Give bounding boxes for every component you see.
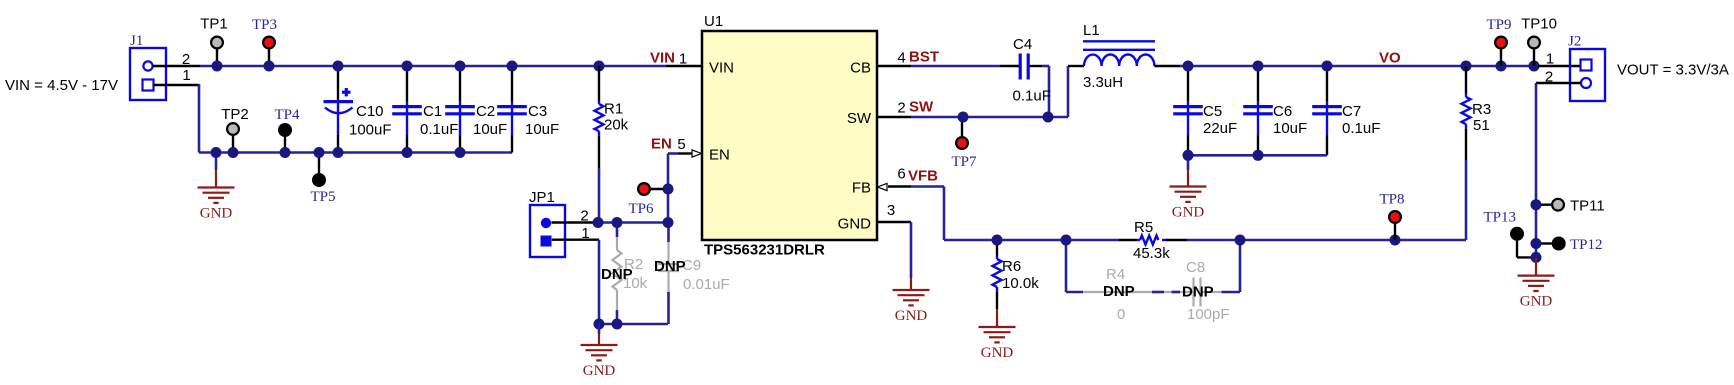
svg-text:TP9: TP9 xyxy=(1486,17,1511,33)
svg-text:TP12: TP12 xyxy=(1570,237,1603,253)
svg-text:10uF: 10uF xyxy=(525,121,559,138)
svg-text:DNP: DNP xyxy=(1103,283,1135,300)
svg-text:VOUT = 3.3V/3A: VOUT = 3.3V/3A xyxy=(1617,62,1729,79)
svg-text:C10: C10 xyxy=(356,103,384,120)
svg-text:0.1uF: 0.1uF xyxy=(420,121,458,138)
svg-text:TP8: TP8 xyxy=(1379,192,1404,208)
svg-text:VIN = 4.5V - 17V: VIN = 4.5V - 17V xyxy=(5,77,118,94)
svg-text:2: 2 xyxy=(897,100,905,117)
svg-text:C4: C4 xyxy=(1013,36,1032,53)
svg-text:DNP: DNP xyxy=(1182,284,1214,301)
svg-text:VIN: VIN xyxy=(650,50,675,67)
svg-text:GND: GND xyxy=(1520,294,1553,310)
svg-text:CB: CB xyxy=(850,60,871,77)
svg-text:TP6: TP6 xyxy=(628,201,654,217)
svg-text:SW: SW xyxy=(847,110,872,127)
svg-text:GND: GND xyxy=(895,308,928,324)
svg-text:J1: J1 xyxy=(130,33,143,49)
svg-text:10.0k: 10.0k xyxy=(1002,275,1039,292)
svg-text:R1: R1 xyxy=(604,101,623,118)
svg-text:1: 1 xyxy=(1546,51,1554,68)
svg-text:TP2: TP2 xyxy=(221,106,249,123)
svg-text:22uF: 22uF xyxy=(1203,120,1237,137)
svg-text:TP11: TP11 xyxy=(1570,198,1605,215)
svg-text:U1: U1 xyxy=(704,13,723,30)
svg-text:SW: SW xyxy=(909,99,934,116)
svg-text:3.3uH: 3.3uH xyxy=(1083,74,1123,91)
svg-text:R3: R3 xyxy=(1472,101,1491,118)
svg-text:3: 3 xyxy=(887,202,895,219)
svg-text:TP7: TP7 xyxy=(951,154,977,170)
svg-text:GND: GND xyxy=(583,363,616,379)
svg-text:0.01uF: 0.01uF xyxy=(683,276,730,293)
svg-text:C1: C1 xyxy=(423,103,442,120)
svg-text:TP4: TP4 xyxy=(274,107,300,123)
svg-text:VIN: VIN xyxy=(709,60,734,77)
svg-text:0: 0 xyxy=(1117,306,1125,323)
svg-text:FB: FB xyxy=(852,180,871,197)
svg-text:1: 1 xyxy=(679,51,687,68)
svg-text:TP13: TP13 xyxy=(1483,210,1516,226)
svg-text:TP5: TP5 xyxy=(310,189,335,205)
svg-text:TP10: TP10 xyxy=(1521,16,1557,33)
svg-text:TP1: TP1 xyxy=(200,16,228,33)
svg-text:100uF: 100uF xyxy=(349,122,392,139)
svg-text:6: 6 xyxy=(897,166,905,183)
svg-text:GND: GND xyxy=(200,206,233,222)
svg-text:VO: VO xyxy=(1379,50,1401,67)
svg-text:C3: C3 xyxy=(528,103,547,120)
svg-text:45.3k: 45.3k xyxy=(1133,245,1170,262)
svg-text:R6: R6 xyxy=(1002,258,1021,275)
svg-text:TP3: TP3 xyxy=(252,17,277,33)
svg-text:R5: R5 xyxy=(1134,219,1153,236)
svg-text:JP1: JP1 xyxy=(529,189,555,206)
svg-text:100pF: 100pF xyxy=(1187,306,1230,323)
svg-text:L1: L1 xyxy=(1083,22,1100,39)
svg-text:C8: C8 xyxy=(1186,259,1205,276)
svg-text:BST: BST xyxy=(909,49,939,66)
svg-text:EN: EN xyxy=(709,147,730,164)
svg-text:0.1uF: 0.1uF xyxy=(1013,88,1051,105)
svg-text:10uF: 10uF xyxy=(473,121,507,138)
svg-text:20k: 20k xyxy=(604,117,629,134)
svg-text:51: 51 xyxy=(1473,117,1490,134)
svg-text:R4: R4 xyxy=(1106,266,1125,283)
svg-text:C5: C5 xyxy=(1203,103,1222,120)
svg-text:5: 5 xyxy=(677,136,685,153)
svg-text:VFB: VFB xyxy=(908,168,938,185)
svg-text:GND: GND xyxy=(1172,205,1205,221)
svg-text:10uF: 10uF xyxy=(1273,120,1307,137)
svg-text:0.1uF: 0.1uF xyxy=(1342,120,1380,137)
svg-text:C7: C7 xyxy=(1342,103,1361,120)
svg-text:TPS563231DRLR: TPS563231DRLR xyxy=(704,242,825,259)
svg-text:DNP: DNP xyxy=(654,258,686,275)
svg-text:C6: C6 xyxy=(1273,103,1292,120)
svg-text:J2: J2 xyxy=(1568,34,1581,50)
svg-text:GND: GND xyxy=(838,216,872,233)
svg-text:4: 4 xyxy=(897,50,905,67)
svg-text:C2: C2 xyxy=(476,103,495,120)
svg-text:1: 1 xyxy=(182,67,190,84)
svg-text:DNP: DNP xyxy=(601,266,633,283)
svg-text:EN: EN xyxy=(651,136,672,153)
svg-text:GND: GND xyxy=(981,345,1014,361)
